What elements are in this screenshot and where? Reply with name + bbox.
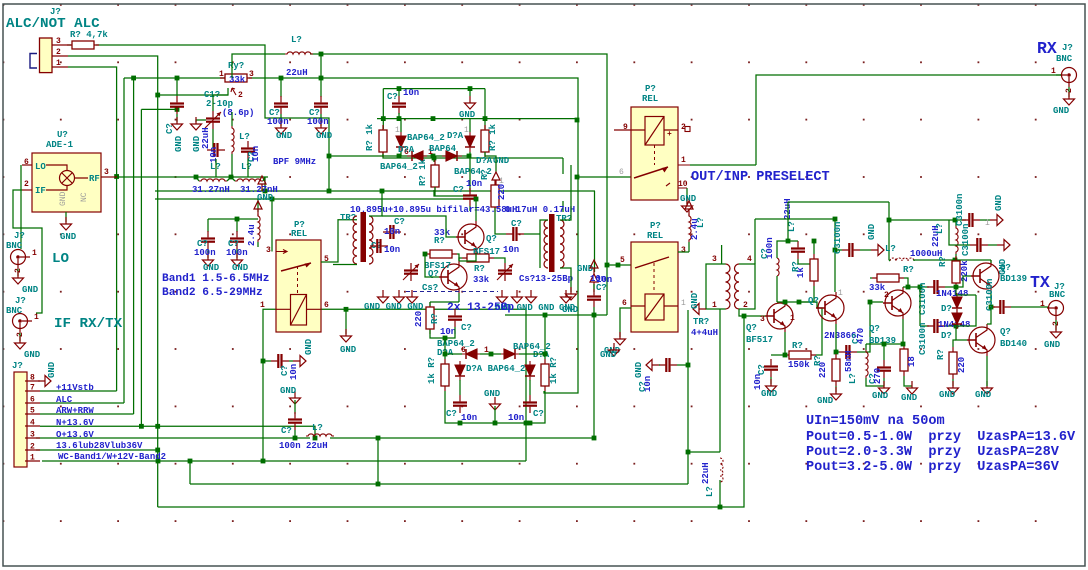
svg-text:GND: GND [257,193,274,203]
junction K1 gnd [344,307,349,312]
svg-text:Q?: Q? [746,323,757,333]
inductor L4 31.27nH [199,179,227,181]
transistor Q1 BFS17 [456,221,484,253]
inductor L1 22uH [232,126,234,154]
wire Q6 emitter [990,292,992,307]
svg-text:10n: 10n [209,147,219,163]
svg-text:1k R?: 1k R? [427,357,437,384]
trimmer capacitor C17 [497,263,513,281]
svg-text:J?: J? [12,361,23,371]
wire rmid bot [434,190,470,196]
junction R3 [483,116,488,121]
junction branch 378 [376,482,381,487]
wire C23 gnd [770,377,772,384]
junction band bus 2 [188,459,193,464]
ground sideways C29 [871,245,884,256]
transformer TR4 right winding [735,264,740,309]
wire riser N13 [140,109,142,426]
power arrow pin5 [590,260,598,275]
svg-text:R?: R? [792,341,803,351]
svg-text:220: 220 [957,357,967,373]
diode D7 BAP64_2 [455,361,465,381]
wire bus y199 [155,198,476,200]
svg-text:REL: REL [647,231,663,241]
svg-text:Pout=2.0-3.3W przy UzasPA=28: Pout=2.0-3.3W przy UzasPA=28V [806,445,1060,460]
svg-text:C?: C? [165,123,175,134]
svg-text:GND: GND [975,390,992,400]
svg-text:1: 1 [56,59,61,68]
svg-text:22uH: 22uH [701,462,711,484]
svg-text:1: 1 [1051,67,1056,76]
junction split [918,285,923,290]
wire LO to BNC [20,165,22,249]
svg-text:GND: GND [817,396,834,406]
wire R5 to C21 [495,208,506,234]
wire C30 feed [948,220,950,241]
svg-text:6: 6 [30,396,35,405]
wire C12 top lead [398,89,400,96]
junction N to bus [313,436,318,441]
junction C7 [319,76,324,81]
svg-text:7: 7 [30,384,35,393]
diode D10 1N4148 [952,309,962,329]
inductor L6 22uH [285,52,313,54]
wire J1 pin3 to R [68,44,71,46]
wire R7 left [459,258,462,261]
svg-text:220: 220 [414,311,424,327]
diode D5 BAP64_2 [461,349,481,359]
wire BPF top rail [117,176,268,178]
wire R13 gnd [835,386,837,392]
junction ring in right [543,313,548,318]
svg-text:150k: 150k [788,360,810,370]
wire R3 gnd leg [485,152,496,172]
wire Q7 base [956,326,967,340]
svg-text:GND: GND [459,110,476,120]
svg-text:R?: R? [474,264,485,274]
wire relay K3 pin6 stub [623,305,625,307]
inductor L12 58nH [866,350,868,378]
wire Q3 collector [784,300,786,302]
svg-text:J?: J? [14,231,25,241]
wire gnd stub [469,89,471,96]
svg-text:2: 2 [24,180,29,189]
junction supply [887,218,892,223]
wire J1 pin1 riser [68,67,117,391]
transformer TR3 left winding [544,220,548,268]
transformer TR2 right winding [369,216,373,264]
ground [566,287,577,300]
relay K2 coil [614,117,678,146]
power arrow [254,201,262,216]
ground sideways C27 [990,215,1003,226]
junction relay pin3 [270,197,275,202]
capacitor C11 100n [288,412,302,430]
relay K2 pin2 pad [685,127,690,132]
wire bus y507 [158,316,744,507]
relay K2 switch [634,145,668,178]
wire supply riser [593,307,595,438]
svg-text:REL: REL [642,94,658,104]
wire out to Q7 c [987,307,991,324]
wire Q3 emitter [784,332,786,355]
wire C32 out [945,325,956,327]
svg-text:2x 13-25Bp: 2x 13-25Bp [447,302,514,314]
junction choke bus [718,505,723,510]
wire diode row [383,151,486,158]
svg-text:4: 4 [30,419,35,428]
svg-text:33k: 33k [473,275,490,285]
wire choke 2.4u [257,199,259,212]
wire C29 gnd [860,249,871,251]
trimpot RV1 33k [220,74,252,82]
ground [490,397,501,410]
wire R12 top [813,241,815,254]
wire bus y78 to ring [249,78,578,393]
junction riser bottom [592,436,597,441]
junction [458,421,463,426]
svg-text:10n: 10n [508,413,524,423]
ground sideways C30 [997,240,1010,251]
wire C1 top [213,95,228,111]
ground [341,329,352,342]
wire TX gnd [1055,320,1057,330]
capacitor C27 100n [962,213,980,227]
capacitor C9 100n [230,231,244,249]
ground [609,343,620,356]
transformer TR3 right winding [560,220,564,268]
svg-text:GND GND GND: GND GND GND [364,302,424,312]
svg-text:Q?: Q? [869,324,880,334]
wire atten top rail [383,88,485,90]
svg-text:RX: RX [1037,39,1057,58]
wire bus y191 [155,190,595,192]
wire R17 top [953,340,956,347]
wire relay pin5 to TR2 [321,220,357,262]
svg-text:BD139: BD139 [1000,274,1027,284]
wire C2 to gnd [176,114,178,122]
resistor R11 150k [784,351,816,359]
connector J4 [14,372,27,467]
mixer U1 pin6 stub [22,164,32,166]
wire TR3 out top [560,165,571,220]
svg-text:GND: GND [901,393,918,403]
inductor L14 1000uH [890,258,914,261]
inductor L8 22uH [306,434,334,436]
transformer TR2 left winding [353,216,357,264]
wire diode frame top [956,294,976,296]
svg-text:470: 470 [856,328,866,344]
svg-text:GND: GND [340,345,357,355]
wire choke bottom [257,242,259,247]
svg-text:5: 5 [324,255,329,264]
ground [290,391,301,404]
transistor Q4 2N3866 [816,292,844,324]
svg-text:GND: GND [690,292,700,309]
svg-text:TX: TX [1030,273,1050,292]
wire Q2 emitter [458,293,460,302]
svg-text:BNC: BNC [1049,290,1066,300]
svg-text:TR?: TR? [693,317,709,327]
capacitor C32 100n [927,319,945,333]
svg-text:GND: GND [761,389,778,399]
wire choke to bus [719,480,721,507]
junction pin4 cross [155,424,160,429]
svg-text:GND: GND [304,338,314,355]
wire c4 bottom [215,159,217,177]
svg-text:GND: GND [867,223,877,240]
svg-text:R? 1k: R? 1k [488,123,498,151]
resistor R2 1k [379,125,387,157]
wire C31 out [945,286,956,288]
wire D1 bot [400,152,402,156]
svg-text:1: 1 [985,219,990,228]
capacitor C30 100n [970,238,988,252]
wire C24 bot [798,259,814,264]
capacitor C4 10n [207,143,225,157]
svg-text:GND: GND [994,194,1004,211]
trimpot RV1 wiper [231,88,236,95]
svg-text:13.6lub28Vlub36V: 13.6lub28Vlub36V [56,441,143,451]
ground [615,332,626,345]
svg-text:4+4uH: 4+4uH [691,328,718,338]
svg-text:3: 3 [30,431,35,440]
capacitor C29 100n [842,243,860,257]
svg-text:1: 1 [838,289,843,298]
diode D6 BAP64_2 [500,349,520,359]
svg-text:+11Vstb: +11Vstb [56,383,94,393]
junction tank1 [194,175,199,180]
svg-text:GND: GND [24,350,41,360]
connector J1 [40,38,53,73]
wire d7 bot [459,380,461,395]
svg-text:R?: R? [936,349,946,360]
wire TR3 in top [540,220,548,234]
wire BPF out drop [264,177,266,191]
diode D3 BAP64_2 [407,151,427,161]
connector J5 lead [1056,74,1061,76]
svg-text:GND: GND [60,232,77,242]
svg-text:4: 4 [747,255,752,264]
ground [948,381,959,394]
svg-text:GND: GND [276,131,293,141]
junction C2 lead [175,107,180,112]
svg-text:100n: 100n [194,248,216,258]
junction L10 top [786,239,791,244]
svg-text:22uH: 22uH [286,68,308,78]
transformer TR4 right frame [739,264,755,309]
wire tank top [231,112,233,126]
transformer TR4 left frame [706,264,726,309]
wire D9 top [955,287,957,295]
junction BPF out [263,189,268,194]
junction [443,352,448,357]
svg-text:GND: GND [634,361,644,378]
wire RX line [756,75,1061,165]
wire R2 drop [382,89,384,129]
junction output [989,305,994,310]
wire TR3 in bot [547,267,549,269]
wire l5 out [263,177,265,181]
svg-text:3: 3 [266,246,271,255]
wire TR3 out bot [560,268,571,292]
ground [61,217,72,230]
svg-text:18: 18 [907,356,917,367]
svg-text:UIn=150mV na 50om: UIn=150mV na 50om [806,414,945,429]
ground [191,117,202,130]
junction diode mid [432,156,437,161]
power arrow gnd [492,172,500,187]
ground sideways C22 [646,360,659,371]
capacitor C25 470 [839,345,857,359]
wire TR2 out top [369,191,382,216]
diode D1 BAP64_2 [396,132,406,152]
wire L10 to node [777,301,799,303]
wire supply drop [888,202,890,260]
wire emitter rail [866,343,903,345]
svg-text:R?: R? [430,313,440,324]
wire tank bottom [231,154,233,177]
svg-text:C3100n: C3100n [961,224,971,256]
wire C10 gnd [289,360,293,362]
svg-text:2.4u: 2.4u [247,224,257,246]
wire R12 bottom [799,286,814,302]
svg-text:220k: 220k [960,260,970,282]
wire C8 [207,225,209,232]
ground [276,121,287,134]
wire L13 bottom [955,254,957,260]
wire rmid top [433,158,435,162]
wire preselect pin6 [577,176,634,178]
junction pin2 row [155,448,160,453]
connector J2 BNC LO [11,250,31,270]
resistor R10 1k [541,359,549,391]
wire to C29 [835,249,842,251]
wire C23 top [771,354,785,356]
wire C14 [382,231,384,233]
wire TR3 left link [539,234,541,268]
resistor R8 220 [426,302,434,334]
svg-text:BNC: BNC [6,306,23,316]
svg-text:1: 1 [260,301,265,310]
svg-text:ADE-1: ADE-1 [46,140,74,150]
svg-text:100n: 100n [307,117,329,127]
svg-text:D?A: D?A [398,145,415,155]
wire C9 gnd [236,249,238,258]
svg-text:GND: GND [232,263,249,273]
capacitor C15 10n [370,239,388,253]
wire L13 top stub [955,220,957,226]
wire ALC row [40,402,124,404]
svg-text:C?: C? [638,381,648,392]
svg-text:1k R?: 1k R? [549,357,559,384]
wire J1 pin2 riser [68,56,158,507]
transformer TR3 core [549,214,555,272]
capacitor C31 100n [927,280,945,294]
svg-text:100n: 100n [267,117,289,127]
svg-text:58nH: 58nH [844,350,854,372]
transistor Q7 BD140 [967,324,995,356]
wire mixer gnd [65,212,67,222]
wire C22 out [677,364,688,366]
wire caps feed [208,218,258,220]
junction Q3 c [783,300,788,305]
power arrow rail [258,176,266,191]
wire IF to BNC [13,190,42,313]
wire to C33 [991,306,995,308]
junction coil bypass [261,359,266,364]
wire ring in right [544,315,546,354]
inductor L5 31.27nH [235,179,263,181]
svg-text:REL: REL [291,229,307,239]
wire C12 bottom [398,113,400,119]
inductor L13 22uH [956,226,958,254]
wire TR2 in bot [333,264,357,266]
svg-text:3: 3 [712,255,717,264]
wire base Q6 [956,276,971,287]
wire branch 378 [377,438,379,484]
inductor L10 22uH [777,258,779,276]
junction L6 [319,52,324,57]
ground [203,253,214,266]
capacitor C10 10n [271,354,289,368]
wire c2 [236,219,238,225]
svg-text:Pout=0.5-1.0W przy UzasPA=13: Pout=0.5-1.0W przy UzasPA=13.6V [806,430,1076,445]
svg-text:10n: 10n [384,245,400,255]
svg-text:R?: R? [480,169,490,180]
svg-text:RF: RF [89,174,100,184]
svg-text:GND: GND [316,131,333,141]
wire C30 gnd [988,244,997,246]
svg-text:10n: 10n [384,227,400,237]
connector J1 bracket [30,54,37,69]
wire bus y78 left [124,77,225,79]
ground [879,381,890,394]
wire relay pin10 [686,188,688,204]
capacitor C8 100n [201,231,215,249]
junction row2 [431,154,436,159]
svg-text:10n: 10n [289,364,299,380]
junction Q6 base node [954,285,959,290]
junction C22 [686,363,691,368]
wire l4 in [196,177,199,181]
wire C26 bot [883,378,885,386]
svg-text:LO: LO [52,251,70,267]
wire supply riser top [594,191,596,272]
connector J4 pins [25,381,40,461]
ground [407,290,418,303]
wire ring top [480,353,501,355]
capacitor C23 10n [764,359,778,377]
svg-text:GND: GND [59,191,68,206]
wire C21 out [524,233,540,235]
wire TR4 right feed [754,219,756,264]
wire riser ALC [123,78,125,403]
svg-text:L?: L? [935,223,945,234]
capacitor C7 100n [314,96,328,114]
svg-text:P?: P? [650,221,661,231]
svg-text:3: 3 [681,246,686,255]
junction Q5 c [906,285,911,290]
svg-text:R?: R? [791,261,801,272]
relay K1 switch [281,263,311,294]
wire branch 190 [189,461,191,484]
resistor R13 220 [832,354,840,386]
svg-text:1: 1 [681,299,686,308]
relay K1 body [276,240,321,332]
wire trimmer to riser [505,314,607,316]
junction R12 [812,239,817,244]
